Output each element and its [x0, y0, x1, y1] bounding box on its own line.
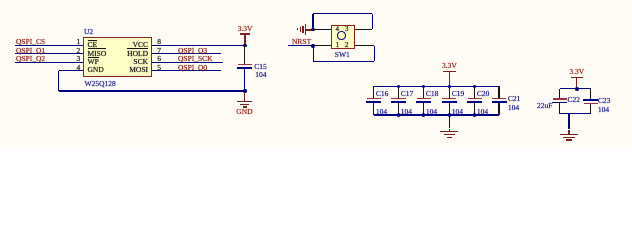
wire right group bottom rail: [560, 113, 591, 114]
sw pin number 4: [336, 26, 340, 33]
capacitor C21: [498, 86, 499, 98]
designator C21: [508, 95, 521, 103]
wire pin 4 horizontal: [59, 70, 83, 71]
pin name VCC: [133, 41, 148, 49]
power 3.3V at bank: [442, 62, 457, 70]
value 104 C20: [477, 108, 488, 116]
power 3.3V rail at C15: [238, 25, 253, 33]
net label QSPI_Q2: [16, 55, 45, 63]
wire sw right up to pin 2: [374, 46, 375, 62]
pin name HOLD: [127, 50, 148, 58]
capacitor C23: [590, 89, 591, 100]
designator C18: [426, 90, 439, 98]
rotated ground symbol at NRST: [306, 29, 314, 30]
value W25Q128: [85, 80, 116, 88]
overline CE: [88, 40, 98, 41]
pin name CE: [88, 41, 98, 49]
pin stub sw 2: [355, 45, 374, 46]
pin number 1: [76, 38, 80, 46]
IC U2 body: [83, 37, 152, 77]
value 104 C16: [376, 108, 387, 116]
ground at C15: [244, 92, 245, 101]
wire NRST: [288, 45, 313, 46]
pin number 3: [76, 55, 80, 63]
pin stub sw 1: [313, 45, 330, 46]
wire sw right down to pin 3: [372, 14, 373, 30]
junction 3.3V bank: [448, 85, 452, 89]
wire pin 4 down: [58, 71, 59, 91]
designator C15: [254, 63, 267, 71]
designator U2: [84, 28, 93, 36]
value 104 C21: [508, 104, 519, 112]
wire QSPI_CS to pin 1: [15, 45, 83, 46]
value 104 C18: [426, 108, 437, 116]
net label QSPI_Q0: [178, 64, 207, 72]
overline HOLD: [127, 48, 148, 49]
wire sw left up: [312, 14, 313, 30]
designator C19: [452, 90, 465, 98]
wire sw top rail: [313, 13, 372, 14]
power 3.3V at right group: [569, 68, 584, 76]
net label NRST: [292, 38, 311, 46]
wire right group top rail: [560, 88, 591, 89]
wire bank top rail: [374, 86, 499, 87]
junction sw pin 4: [311, 28, 315, 32]
junction top rail x423: [422, 85, 426, 89]
wire QSPI_Q1 to pin 2: [15, 53, 83, 54]
capacitor C20: [474, 86, 475, 98]
wire pin 6 QSPI_SCK: [152, 62, 224, 63]
junction pin8/3.3V/C15: [243, 44, 247, 48]
switch SW1 button circle: [337, 31, 346, 40]
capacitor C18: [423, 86, 424, 98]
sw pin number 2: [345, 42, 349, 49]
value 104 C15: [255, 71, 266, 79]
value 104 C19: [452, 108, 463, 116]
ground at bank: [449, 116, 450, 129]
junction C15/GND: [243, 89, 247, 93]
pin number 8: [157, 38, 161, 46]
wire bank bottom rail: [374, 114, 499, 115]
sw pin number 1: [336, 42, 340, 49]
overline WP: [88, 57, 99, 58]
junction top rail x398: [397, 85, 401, 89]
value 104 C17: [401, 108, 412, 116]
junction bottom rail x474: [473, 113, 477, 117]
junction 3.3V right group: [575, 87, 579, 91]
junction bottom rail x423: [422, 113, 426, 117]
designator C16: [376, 90, 389, 98]
junction sw pin 1: [311, 44, 315, 48]
pin stub sw 4: [313, 29, 331, 30]
junction bottom rail x449: [448, 113, 452, 117]
capacitor C17: [398, 86, 399, 98]
capacitor C22: [559, 89, 560, 99]
designator C17: [401, 90, 414, 98]
pin name SCK: [133, 58, 148, 66]
ground at right group: [568, 114, 569, 130]
net label QSPI_Q3: [178, 47, 207, 55]
designator C22: [568, 96, 581, 104]
capacitor C15 bottom stem: [244, 69, 245, 91]
capacitor C15 plates: [238, 64, 252, 65]
pin name GND: [88, 66, 104, 74]
wire pin 8 to 3.3V: [152, 45, 245, 46]
capacitor C16: [373, 86, 374, 98]
wire sw left down: [313, 46, 314, 62]
designator C23: [598, 97, 611, 105]
pin number 5: [157, 64, 161, 72]
pin number 7: [157, 47, 161, 55]
net label QSPI_SCK: [178, 55, 213, 63]
pin number 2: [76, 47, 80, 55]
overline MISO: [88, 48, 107, 49]
junction top rail x474: [473, 85, 477, 89]
switch SW1 body: [331, 25, 356, 49]
designator SW1: [335, 51, 350, 59]
designator C20: [477, 90, 490, 98]
pin name WP: [88, 58, 99, 66]
pin stub sw 3: [355, 29, 372, 30]
pin number 4: [76, 64, 80, 72]
net label QSPI_Q1: [16, 47, 45, 55]
pin name MOSI: [129, 66, 148, 74]
wire gnd bottom run: [59, 90, 245, 91]
pin number 6: [157, 55, 161, 63]
value 22uF C22: [537, 102, 552, 110]
value 104 C23: [598, 106, 609, 114]
sw pin number 3: [345, 26, 349, 33]
net label QSPI_CS: [16, 38, 45, 46]
junction top rail x449: [448, 85, 452, 89]
wire QSPI_Q2 to pin 3: [15, 62, 83, 63]
wire pin 5 QSPI_Q0: [152, 70, 222, 71]
junction bottom rail x398: [397, 113, 401, 117]
wire pin 7 QSPI_Q3: [152, 53, 221, 54]
wire sw bottom rail: [313, 61, 374, 62]
capacitor C15 top stem: [244, 45, 245, 64]
capacitor C19: [449, 86, 450, 98]
pin name MISO: [88, 50, 107, 58]
